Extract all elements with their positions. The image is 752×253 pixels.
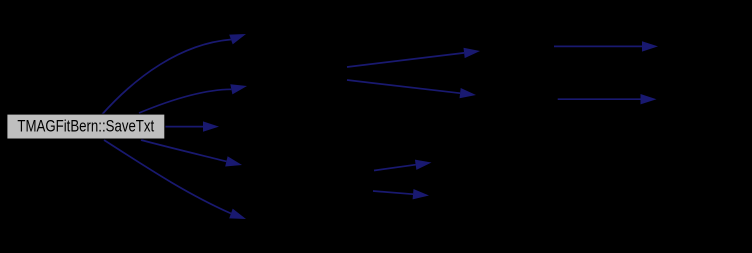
edge main->n5: [141, 140, 242, 167]
edge n3->n8: [347, 80, 476, 98]
edge main->n4: [165, 121, 219, 131]
edge n5->n10: [373, 189, 429, 199]
svg-text:TMAGFitBern::SaveTxt: TMAGFitBern::SaveTxt: [17, 118, 154, 136]
edge n3->n7: [347, 48, 480, 67]
edge n7->n11: [554, 41, 658, 51]
edge main->n2: [102, 34, 246, 115]
edge main->n6: [104, 140, 246, 219]
edge n8->n12: [558, 94, 657, 104]
node main: TMAGFitBern::SaveTxt: [7, 114, 165, 139]
edge n5->n9: [374, 160, 432, 171]
edge main->n3: [139, 84, 247, 113]
